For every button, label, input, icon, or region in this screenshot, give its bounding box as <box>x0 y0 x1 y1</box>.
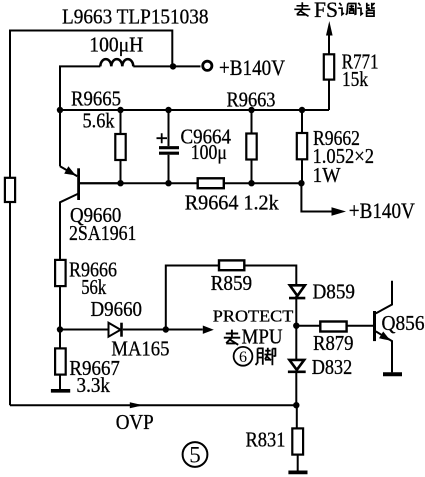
resistor R831 <box>296 405 298 428</box>
svg-text:R879: R879 <box>313 331 354 355</box>
node junction R9665 top <box>117 107 123 113</box>
arrow Q9660 emitter <box>64 166 76 175</box>
wire node line 1 <box>60 109 329 111</box>
ground under R831 <box>288 470 307 474</box>
node junction R9666/R9667/D9660 <box>57 326 63 332</box>
svg-text:MA165: MA165 <box>111 336 169 360</box>
svg-text:Q856: Q856 <box>382 311 425 335</box>
transistor Q856 <box>373 311 376 341</box>
hanzi tiao (top) <box>338 3 356 15</box>
svg-text:R9665: R9665 <box>71 87 121 111</box>
svg-text:R9663: R9663 <box>227 87 276 111</box>
node junction OVP/R831 <box>293 402 299 408</box>
inductor L 100uH coil <box>100 59 133 66</box>
svg-text:1W: 1W <box>313 163 341 187</box>
node junction R9663 bottom <box>248 180 254 186</box>
node junction R9662 bottom <box>298 180 304 186</box>
resistor R9667 <box>59 330 61 349</box>
circled 6 pin marker <box>234 347 253 366</box>
hanzi xie (top) <box>357 3 375 16</box>
diode D9660 <box>109 323 121 337</box>
resistor R771 <box>328 35 330 110</box>
hanzi qu (middle) <box>224 330 240 345</box>
node junction C9664 top <box>165 107 171 113</box>
hanzi qu (top) <box>294 2 310 16</box>
svg-text:L9663 TLP151038: L9663 TLP151038 <box>62 5 209 29</box>
circled 5 page marker <box>183 442 208 467</box>
svg-text:3.3k: 3.3k <box>77 373 111 397</box>
ground under Q856 <box>383 372 402 376</box>
resistor R9665 <box>120 110 122 183</box>
node junction inductor/top wire <box>170 63 176 69</box>
svg-text:R859: R859 <box>211 271 253 295</box>
arrow OVP <box>130 402 143 408</box>
svg-text:5: 5 <box>189 443 201 468</box>
svg-text:D859: D859 <box>313 279 356 303</box>
wire to +B140V lower <box>301 183 332 211</box>
svg-text:56k: 56k <box>81 275 106 299</box>
wire node line 2 <box>78 182 302 184</box>
svg-text:+B140V: +B140V <box>349 198 415 223</box>
svg-text:100μH: 100μH <box>89 33 143 57</box>
node junction D859/D832/R879 <box>293 323 299 329</box>
svg-text:FS: FS <box>314 0 338 22</box>
resistor unlabeled on left line <box>5 178 15 202</box>
wire R859 branch <box>166 266 296 330</box>
transistor Q9660 <box>59 110 61 166</box>
svg-text:15k: 15k <box>342 67 368 91</box>
terminal +B140V open circle <box>203 61 212 70</box>
resistor R9662 <box>301 110 303 183</box>
svg-text:R831: R831 <box>246 427 286 451</box>
capacitor C9664 <box>168 110 170 183</box>
svg-text:PROTECT: PROTECT <box>213 306 294 325</box>
wire OVP line <box>10 404 296 406</box>
svg-text:+B140V: +B140V <box>219 55 285 80</box>
svg-text:MPU: MPU <box>242 325 283 349</box>
wire D9660 node line <box>60 329 203 331</box>
ground under R9667 <box>51 389 70 393</box>
resistor R9664 <box>198 178 224 188</box>
node junction R9665 bottom <box>117 180 123 186</box>
wire left vertical OVP feedback <box>10 31 172 406</box>
diode D832 <box>295 326 297 360</box>
node junction R9662 top <box>299 107 305 113</box>
svg-text:OVP: OVP <box>116 410 154 434</box>
svg-text:2SA1961: 2SA1961 <box>69 221 137 245</box>
svg-text:D832: D832 <box>312 355 353 379</box>
arrow PROTECT <box>203 326 214 334</box>
hanzi jiao <box>256 348 276 366</box>
arrow Q856 emitter <box>379 332 391 341</box>
resistor R9663 <box>251 110 253 183</box>
svg-text:100μ: 100μ <box>191 140 227 164</box>
node junction emitter/R9665 rail left <box>57 107 63 113</box>
wire inductor line <box>60 66 201 110</box>
wire base of Q856 <box>296 325 373 327</box>
node junction C9664 bottom <box>165 180 171 186</box>
node junction R9663 top <box>248 107 254 113</box>
resistor R9666 <box>55 260 66 286</box>
svg-text:5.6k: 5.6k <box>83 109 115 133</box>
svg-text:D9660: D9660 <box>91 297 143 321</box>
arrow +B140V right <box>332 207 347 216</box>
resistor R879 <box>320 322 346 332</box>
arrow up to FS <box>326 21 333 36</box>
svg-text:R9664 1.2k: R9664 1.2k <box>185 190 279 214</box>
node junction D9660/R859 branch <box>163 326 169 332</box>
svg-text:6: 6 <box>239 349 247 366</box>
resistor R859 <box>219 260 244 270</box>
diode D859 <box>290 285 305 296</box>
